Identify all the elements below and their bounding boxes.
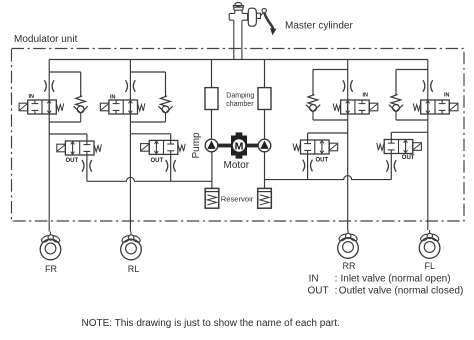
svg-text:NOTE: This drawing is just to: NOTE: This drawing is just to show the n… [82, 318, 340, 329]
svg-text:Modulator unit: Modulator unit [14, 34, 78, 45]
svg-text:IN: IN [110, 95, 116, 101]
svg-text:IN: IN [29, 94, 35, 100]
svg-text:RL: RL [128, 264, 140, 274]
svg-text:IN: IN [309, 274, 319, 285]
svg-text::: : [335, 274, 338, 285]
svg-text::: : [335, 286, 338, 297]
svg-text:FL: FL [425, 261, 436, 271]
svg-text:Outlet valve (normal closed): Outlet valve (normal closed) [339, 286, 464, 297]
svg-text:FR: FR [45, 264, 57, 274]
svg-text:Reservoir: Reservoir [221, 194, 254, 203]
svg-text:Damping: Damping [226, 93, 254, 100]
svg-text:IN: IN [363, 92, 369, 98]
svg-text:Pump: Pump [191, 132, 202, 159]
svg-text:OUT: OUT [402, 155, 415, 161]
svg-text:IN: IN [444, 92, 450, 98]
svg-text:RR: RR [343, 261, 356, 271]
svg-text:Master cylinder: Master cylinder [285, 21, 353, 32]
svg-text:chamber: chamber [226, 101, 254, 108]
svg-text:OUT: OUT [66, 158, 79, 164]
svg-text:Motor: Motor [224, 160, 250, 171]
svg-text:OUT: OUT [316, 157, 329, 163]
svg-text:OUT: OUT [308, 286, 329, 297]
svg-text:OUT: OUT [151, 158, 164, 164]
svg-text:Inlet valve (normal open): Inlet valve (normal open) [341, 274, 451, 285]
svg-text:M: M [235, 140, 244, 152]
